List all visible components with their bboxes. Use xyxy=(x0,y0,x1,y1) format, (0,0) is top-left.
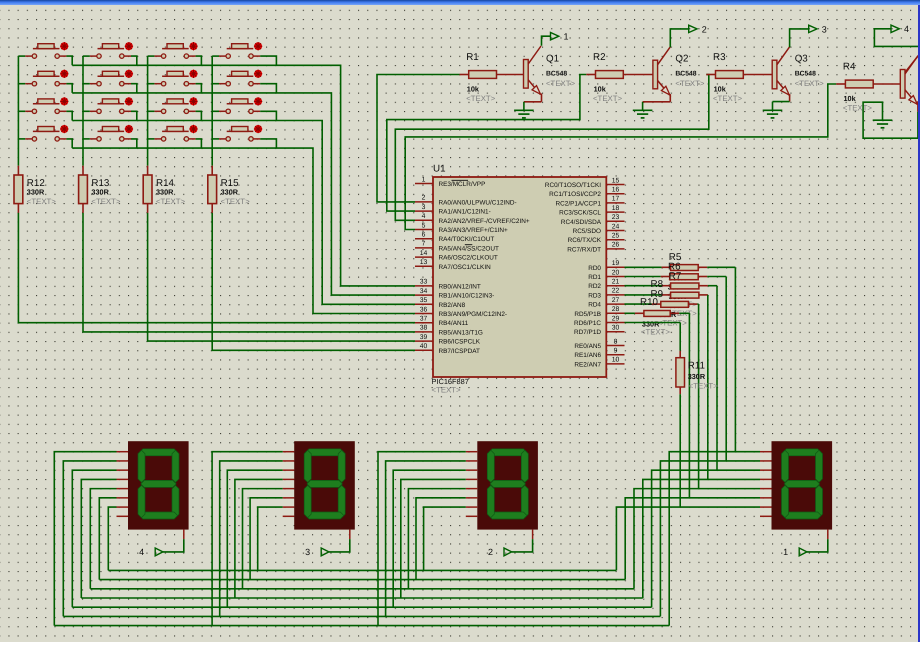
U1 pin 8 RE0 (right) xyxy=(574,338,624,350)
wire button(4,2) right terminal jog to row line xyxy=(131,139,137,148)
display 1 segment pins xyxy=(760,452,828,539)
svg-text:RA2/AN2/VREF-/CVREF/C2IN+: RA2/AN2/VREF-/CVREF/C2IN+ xyxy=(439,218,530,225)
svg-text:330R: 330R xyxy=(27,188,45,197)
U1 pin 29 RD6 (right) xyxy=(574,315,625,327)
wire R11 to display segment g column xyxy=(679,394,681,507)
display 4 common terminal 4 xyxy=(139,539,184,557)
svg-text:RA4/T0CKI/C1OUT: RA4/T0CKI/C1OUT xyxy=(439,236,495,243)
svg-text:RA1/AN1/C12IN1-: RA1/AN1/C12IN1- xyxy=(439,209,491,216)
svg-text:10k: 10k xyxy=(467,84,480,93)
push button SW11 (row 3, col 3) xyxy=(154,97,197,113)
wire Q4 emitter to ground xyxy=(863,101,918,138)
svg-text:29: 29 xyxy=(612,315,620,322)
wire button(1,4) left terminal to column bus xyxy=(212,55,219,57)
U1 pin 20 RD1 (right) xyxy=(588,269,624,281)
svg-text:3: 3 xyxy=(305,547,310,557)
wire button(1,1) right terminal jog to row line xyxy=(66,56,72,65)
U1 pin 9 RE1 (right) xyxy=(574,348,624,360)
svg-text:5: 5 xyxy=(422,222,426,229)
svg-text:RC2/P1A/CCP1: RC2/P1A/CCP1 xyxy=(556,200,602,207)
svg-text:1: 1 xyxy=(422,176,426,183)
svg-text:RC4/SDI/SDA: RC4/SDI/SDA xyxy=(561,219,602,226)
resistor R8 330R xyxy=(651,279,708,298)
wire display 4 segment f xyxy=(99,498,116,580)
svg-text:RD6/P1C: RD6/P1C xyxy=(574,320,601,327)
svg-text:RC7/RX/DT: RC7/RX/DT xyxy=(567,246,601,253)
display 4 segment pins xyxy=(117,452,184,539)
wire keypad row 4 to PIC pin 36 (RB3) xyxy=(72,148,415,313)
push button SW3 (row 1, col 3) xyxy=(154,42,197,58)
R8 value labels xyxy=(668,301,697,318)
wire display 1 segment f xyxy=(625,498,760,580)
svg-text:R1: R1 xyxy=(466,52,479,63)
push button SW2 (row 1, col 2) xyxy=(90,42,133,58)
svg-text:RA6/OSC2/CLKOUT: RA6/OSC2/CLKOUT xyxy=(439,255,498,262)
U1 pin 23 RC4 (right) xyxy=(561,214,625,226)
wire display 3 segment e xyxy=(243,489,283,589)
svg-text:10: 10 xyxy=(612,357,620,364)
svg-text:330R: 330R xyxy=(156,188,174,197)
U1 pin 2 RA0 (left) xyxy=(415,195,517,207)
wire button(4,3) left terminal to column bus xyxy=(148,138,155,140)
svg-text:1: 1 xyxy=(564,32,569,42)
U1 pin 15 RC0 (right) xyxy=(545,177,625,189)
wire R1 to Q1 base xyxy=(497,74,524,76)
svg-text:<TEXT>: <TEXT> xyxy=(795,79,824,88)
display 2 common terminal 2 xyxy=(488,539,533,557)
terminal 3 (to display 3 common) xyxy=(790,24,827,47)
svg-text:RD7/P1D: RD7/P1D xyxy=(574,329,601,336)
svg-text:16: 16 xyxy=(612,187,620,194)
svg-text:13: 13 xyxy=(420,259,428,266)
push button SW4 (row 1, col 4) xyxy=(219,42,262,58)
wire display 2 segment f xyxy=(416,498,466,580)
svg-text:RA7/OSC1/CLKIN: RA7/OSC1/CLKIN xyxy=(439,264,492,271)
svg-text:19: 19 xyxy=(612,260,620,267)
resistor R5 330R xyxy=(669,252,707,271)
U1 pin 19 RD0 (right) xyxy=(588,260,624,272)
wire display 4 segment g xyxy=(108,507,116,570)
transistor Q2 BC548 xyxy=(653,47,705,95)
wire R13 to PIC pin 38 (RB5) xyxy=(83,213,415,332)
svg-text:<TEXT>: <TEXT> xyxy=(641,327,670,336)
wire display 2 segment a xyxy=(378,452,466,626)
wire PIC pin to R6 xyxy=(625,276,670,278)
svg-text:26: 26 xyxy=(612,242,620,249)
wire PIC pin to R8 xyxy=(625,294,671,296)
wire PIC pin to R7 xyxy=(625,285,671,287)
wire Q4 collector to right edge xyxy=(905,54,920,73)
svg-text:U1: U1 xyxy=(433,164,446,175)
wire button(4,1) left terminal to column bus xyxy=(18,138,25,140)
svg-text:RD5/P1B: RD5/P1B xyxy=(574,311,601,318)
svg-text:<TEXT>: <TEXT> xyxy=(713,94,742,103)
U1 pin 25 RC6 (right) xyxy=(568,233,625,245)
push button SW9 (row 3, col 1) xyxy=(25,97,68,113)
U1 pin 39 RB6 (left) xyxy=(415,334,481,346)
wire keypad column 2 bus xyxy=(82,56,84,166)
wire keypad column 1 bus xyxy=(17,56,19,166)
display 2 segment pins xyxy=(466,452,533,539)
svg-text:330R: 330R xyxy=(91,188,109,197)
svg-text:Q3: Q3 xyxy=(795,54,809,65)
svg-text:RD1: RD1 xyxy=(588,274,601,281)
7-segment display 4 body xyxy=(128,441,189,529)
wire button(3,4) right terminal jog to row line xyxy=(260,111,276,120)
U1 pin 1 RE3 (left) xyxy=(415,176,485,188)
svg-text:<TEXT>: <TEXT> xyxy=(546,79,575,88)
U1 pin 33 RB0 (left) xyxy=(415,279,481,291)
svg-text:RB1/AN10/C12IN3-: RB1/AN10/C12IN3- xyxy=(439,293,495,300)
wire button(2,2) left terminal to column bus xyxy=(83,83,90,85)
svg-text:330R: 330R xyxy=(221,188,239,197)
svg-text:20: 20 xyxy=(612,269,620,276)
svg-text:<TEXT>: <TEXT> xyxy=(675,79,704,88)
svg-text:10k: 10k xyxy=(594,84,607,93)
push button SW10 (row 3, col 2) xyxy=(90,97,133,113)
svg-text:R7: R7 xyxy=(669,271,682,282)
svg-text:10k: 10k xyxy=(844,94,857,103)
U1 pin 16 RC1 (right) xyxy=(549,187,624,199)
U1 pin 24 RC5 (right) xyxy=(573,223,625,235)
U1 pin 22 RD3 (right) xyxy=(588,288,624,300)
wire display 2 segment b xyxy=(386,461,466,616)
wire R6 to display segment column xyxy=(707,277,726,461)
resistor R7 330R xyxy=(669,271,708,289)
svg-text:R3: R3 xyxy=(713,52,726,63)
wire button(1,3) left terminal to column bus xyxy=(148,55,155,57)
U1 pin 28 RD5 (right) xyxy=(574,306,624,318)
wire button(2,4) right terminal jog to row line xyxy=(260,84,276,93)
transistor Q4 BC548 xyxy=(900,56,918,104)
wire display 4 segment d xyxy=(81,479,116,598)
U1 pin 4 RA2 (left) xyxy=(415,213,530,225)
U1 pin 6 RA4 (left) xyxy=(415,232,494,244)
wire R12 to PIC pin 37 (RB4) xyxy=(18,213,415,323)
wire R3 to Q3 base xyxy=(743,74,772,76)
svg-text:RB4/AN11: RB4/AN11 xyxy=(439,320,469,327)
svg-text:RC3/SCK/SCL: RC3/SCK/SCL xyxy=(559,210,601,217)
push button SW6 (row 2, col 2) xyxy=(90,70,133,86)
wire button(2,1) left terminal to column bus xyxy=(18,83,25,85)
U1 pin 13 RA7 (left) xyxy=(415,259,491,271)
U1 pin 18 RC3 (right) xyxy=(559,205,624,217)
svg-text:330R: 330R xyxy=(688,372,706,381)
push button SW15 (row 4, col 3) xyxy=(154,125,197,141)
U1 pin 34 RB1 (left) xyxy=(415,288,494,300)
svg-text:18: 18 xyxy=(612,205,620,212)
segment bus wire a xyxy=(54,625,669,627)
wire display 1 segment b xyxy=(660,461,760,616)
wire button(4,3) right terminal jog to row line xyxy=(196,139,202,148)
svg-text:39: 39 xyxy=(420,334,428,341)
svg-text:6: 6 xyxy=(422,232,426,239)
svg-text:4: 4 xyxy=(139,547,144,557)
wire button(1,4) right terminal jog to row line xyxy=(260,56,276,65)
svg-text:24: 24 xyxy=(612,223,620,230)
U1 pin 10 RE2 (right) xyxy=(574,357,624,369)
resistor R13 330R xyxy=(79,166,121,213)
wire button(2,1) right terminal jog to row line xyxy=(66,84,72,93)
svg-text:R11: R11 xyxy=(688,361,705,372)
svg-text:<TEXT>: <TEXT> xyxy=(843,103,872,112)
svg-text:<TEXT>: <TEXT> xyxy=(466,94,495,103)
U1 pin 38 RB5 (left) xyxy=(415,325,483,337)
wire R4 to Q4 base xyxy=(873,83,900,85)
resistor R14 330R xyxy=(143,166,185,213)
segment bus wire d xyxy=(81,597,643,599)
wire display 3 segment f xyxy=(250,498,283,580)
wire display 2 segment d xyxy=(401,479,466,598)
svg-text:37: 37 xyxy=(420,316,428,323)
svg-text:RB2/AN8: RB2/AN8 xyxy=(439,302,466,309)
wire Q2 emitter to ground xyxy=(643,94,671,110)
wire button(1,3) right terminal jog to row line xyxy=(196,56,202,65)
push button SW13 (row 4, col 1) xyxy=(25,125,68,141)
svg-text:4: 4 xyxy=(422,213,426,220)
U1 pin 7 RA5 (left) xyxy=(415,241,499,253)
wire PIC pin 3 (RA1) to R2 xyxy=(387,75,596,212)
wire PIC pin 4 (RA2) to R3 xyxy=(395,75,715,221)
svg-text:2: 2 xyxy=(702,24,707,34)
svg-text:<TEXT>: <TEXT> xyxy=(156,197,185,206)
wire display 2 segment e xyxy=(408,489,465,589)
resistor R3 10k xyxy=(713,52,743,103)
resistor R11 330R xyxy=(676,351,718,394)
R5 value labels xyxy=(668,273,697,290)
svg-text:R2: R2 xyxy=(593,52,606,63)
ground for Q2 xyxy=(633,110,653,118)
window title bar bottom edge xyxy=(0,0,920,5)
svg-text:23: 23 xyxy=(612,214,620,221)
wire R14 to PIC pin 39 (RB6) xyxy=(148,213,415,341)
svg-text:RD4: RD4 xyxy=(588,302,601,309)
svg-text:9: 9 xyxy=(614,348,618,355)
wire keypad column 4 bus xyxy=(211,56,213,166)
svg-text:RE0/AN5: RE0/AN5 xyxy=(574,343,601,350)
svg-text:Q1: Q1 xyxy=(546,54,559,65)
7-segment display 3 body xyxy=(294,441,355,529)
svg-text:RC5/SDO: RC5/SDO xyxy=(573,228,601,235)
resistor R15 330R xyxy=(208,166,250,213)
wire R10 to display segment column xyxy=(679,313,689,498)
window right border xyxy=(918,5,920,642)
wire display 1 segment c xyxy=(652,470,760,607)
wire keypad row 2 to PIC pin 34 (RB1) xyxy=(72,93,415,295)
terminal 1 (to display 1 common) xyxy=(542,32,569,46)
svg-text:<TEXT>: <TEXT> xyxy=(432,386,461,395)
wire display 1 segment a xyxy=(669,452,760,626)
svg-text:<TEXT>: <TEXT> xyxy=(91,197,120,206)
wire PIC pin to R9 xyxy=(625,303,661,305)
svg-text:4: 4 xyxy=(904,24,909,34)
wire button(2,3) right terminal jog to row line xyxy=(196,84,202,93)
svg-text:RB3/AN9/PGM/C12IN2-: RB3/AN9/PGM/C12IN2- xyxy=(439,311,508,318)
wire display 1 segment g xyxy=(616,507,760,570)
wire R9 to display segment column xyxy=(697,304,698,489)
svg-text:36: 36 xyxy=(420,306,428,313)
svg-text:R10: R10 xyxy=(640,297,659,308)
wire button(1,2) right terminal jog to row line xyxy=(131,56,137,65)
R6 value labels xyxy=(667,283,696,300)
wire button(1,2) left terminal to column bus xyxy=(83,55,90,57)
terminal 4 (to display 4 common) xyxy=(874,24,920,46)
wire keypad row 3 to PIC pin 35 (RB2) xyxy=(72,121,415,305)
svg-text:RC1/T1OSI/CCP2: RC1/T1OSI/CCP2 xyxy=(549,191,601,198)
wire PIC pin to R5 xyxy=(625,266,671,268)
svg-text:1: 1 xyxy=(783,547,788,557)
segment bus wire g xyxy=(108,569,616,571)
svg-text:<TEXT>: <TEXT> xyxy=(221,197,250,206)
display 3 segment pins xyxy=(283,452,350,539)
wire PIC pin 5 (RA3) to R4 xyxy=(405,84,845,230)
svg-text:RC6/TX/CK: RC6/TX/CK xyxy=(568,237,602,244)
wire button(4,4) left terminal to column bus xyxy=(212,138,219,140)
U1 pin 36 RB3 (left) xyxy=(415,306,507,318)
wire display 4 segment e xyxy=(90,489,116,589)
7-segment display 2 body xyxy=(477,441,538,529)
svg-text:33: 33 xyxy=(420,279,428,286)
svg-text:8: 8 xyxy=(614,338,618,345)
push button SW5 (row 2, col 1) xyxy=(25,70,68,86)
resistor R6 330R xyxy=(668,262,707,280)
svg-text:35: 35 xyxy=(420,297,428,304)
wire display 4 segment b xyxy=(63,461,116,616)
wire button(3,1) right terminal jog to row line xyxy=(66,111,72,120)
wire button(3,3) right terminal jog to row line xyxy=(196,111,202,120)
svg-text:BC548: BC548 xyxy=(675,70,696,77)
wire Q3 emitter to ground xyxy=(773,94,790,110)
push button SW7 (row 2, col 3) xyxy=(154,70,197,86)
wire display 3 segment a xyxy=(212,452,283,626)
wire display 3 segment b xyxy=(220,461,283,616)
wire button(2,4) left terminal to column bus xyxy=(212,83,219,85)
wire button(2,3) left terminal to column bus xyxy=(148,83,155,85)
svg-text:10k: 10k xyxy=(714,84,727,93)
svg-text:RE3/MCLR/VPP: RE3/MCLR/VPP xyxy=(439,181,486,188)
push button SW16 (row 4, col 4) xyxy=(219,125,262,141)
svg-text:28: 28 xyxy=(612,306,620,313)
resistor R2 10k xyxy=(593,52,623,103)
svg-text:3: 3 xyxy=(422,204,426,211)
svg-text:3: 3 xyxy=(822,24,827,34)
U1 pin 30 RD7 (right) xyxy=(574,325,625,337)
U1 pin 17 RC2 (right) xyxy=(556,196,625,208)
svg-text:25: 25 xyxy=(612,233,620,240)
wire keypad column 3 bus xyxy=(147,56,149,166)
7-segment display 1 body xyxy=(772,441,833,529)
transistor Q3 BC548 xyxy=(772,47,824,95)
wire PIC pin 2 (RA0) to R1 xyxy=(377,75,469,202)
IC U1 PIC16F887 body xyxy=(432,164,607,395)
wire PIC pin 29 to R11 xyxy=(625,323,681,351)
wire keypad row 1 to PIC pin 33 (RB0) xyxy=(72,65,415,286)
wire display 3 segment g xyxy=(258,507,283,570)
wire button(2,2) right terminal jog to row line xyxy=(131,84,137,93)
svg-text:14: 14 xyxy=(420,250,428,257)
U1 pin 14 RA6 (left) xyxy=(415,250,498,262)
R10 value labels xyxy=(641,319,670,336)
display 3 common terminal 3 xyxy=(305,539,350,557)
svg-text:30: 30 xyxy=(612,325,620,332)
wire button(3,1) left terminal to column bus xyxy=(18,110,25,112)
svg-text:2: 2 xyxy=(422,195,426,202)
svg-text:38: 38 xyxy=(420,325,428,332)
U1 pin 21 RD2 (right) xyxy=(588,279,624,291)
wire display 3 segment c xyxy=(227,470,282,607)
wire display 4 segment c xyxy=(72,470,116,607)
push button SW8 (row 2, col 4) xyxy=(219,70,262,86)
svg-text:15: 15 xyxy=(612,177,620,184)
wire R7 to display segment column xyxy=(708,286,717,471)
wire button(3,2) right terminal jog to row line xyxy=(131,111,137,120)
segment bus wire b xyxy=(63,615,660,617)
wire button(4,4) right terminal jog to row line xyxy=(260,139,276,148)
wire button(4,2) left terminal to column bus xyxy=(83,138,90,140)
svg-text:7: 7 xyxy=(422,241,426,248)
svg-text:RE1/AN6: RE1/AN6 xyxy=(574,352,601,359)
U1 pin 5 RA3 (left) xyxy=(415,222,508,234)
svg-text:17: 17 xyxy=(612,196,620,203)
display 1 common terminal 1 xyxy=(783,539,828,557)
wire display 3 segment d xyxy=(235,479,283,598)
resistor R10 330R xyxy=(640,297,679,317)
wire R8 to display segment column xyxy=(707,295,709,480)
resistor R12 330R xyxy=(14,166,56,213)
U1 pin 3 RA1 (left) xyxy=(415,204,491,216)
svg-text:BC548: BC548 xyxy=(546,70,567,77)
segment bus wire e xyxy=(90,588,634,590)
svg-text:RB6/ICSPCLK: RB6/ICSPCLK xyxy=(439,339,481,346)
svg-text:<TEXT>: <TEXT> xyxy=(689,382,718,391)
resistor R4 10k xyxy=(843,62,873,113)
wire button(3,2) left terminal to column bus xyxy=(83,110,90,112)
wire R15 to PIC pin 40 (RB7) xyxy=(212,213,415,350)
resistor R1 10k xyxy=(466,52,496,103)
svg-text:22: 22 xyxy=(612,288,620,295)
wire display 4 segment a xyxy=(54,452,116,626)
wire button(4,1) right terminal jog to row line xyxy=(66,139,72,148)
ground for Q4 xyxy=(873,120,893,128)
R7 value labels xyxy=(668,292,697,309)
wire button(3,3) left terminal to column bus xyxy=(148,110,155,112)
wire display 2 segment g xyxy=(424,507,466,570)
svg-text:21: 21 xyxy=(612,279,620,286)
wire button(3,4) left terminal to column bus xyxy=(212,110,219,112)
svg-text:<TEXT>: <TEXT> xyxy=(27,197,56,206)
U1 pin 35 RB2 (left) xyxy=(415,297,466,309)
svg-text:RB5/AN13/T1G: RB5/AN13/T1G xyxy=(439,329,483,336)
segment bus wire f xyxy=(99,579,625,581)
svg-text:RD2: RD2 xyxy=(588,283,601,290)
wire PIC pin to R10 xyxy=(625,312,644,314)
wire R2 to Q2 base xyxy=(623,74,653,76)
R9 value labels xyxy=(658,310,687,327)
svg-text:34: 34 xyxy=(420,288,428,295)
wire display 2 segment c xyxy=(393,470,466,607)
svg-text:27: 27 xyxy=(612,297,620,304)
wire display 1 segment d xyxy=(643,479,760,598)
wire Q1 emitter to ground xyxy=(524,93,542,110)
push button SW14 (row 4, col 2) xyxy=(90,125,133,141)
segment bus wire c xyxy=(72,606,651,608)
svg-text:2: 2 xyxy=(488,547,493,557)
U1 pin 37 RB4 (left) xyxy=(415,316,469,328)
svg-text:R4: R4 xyxy=(843,62,856,73)
svg-text:RA0/AN0/ULPWU/C12IND-: RA0/AN0/ULPWU/C12IND- xyxy=(439,199,517,206)
svg-text:BC548: BC548 xyxy=(795,70,816,77)
resistor R9 330R xyxy=(651,289,698,307)
